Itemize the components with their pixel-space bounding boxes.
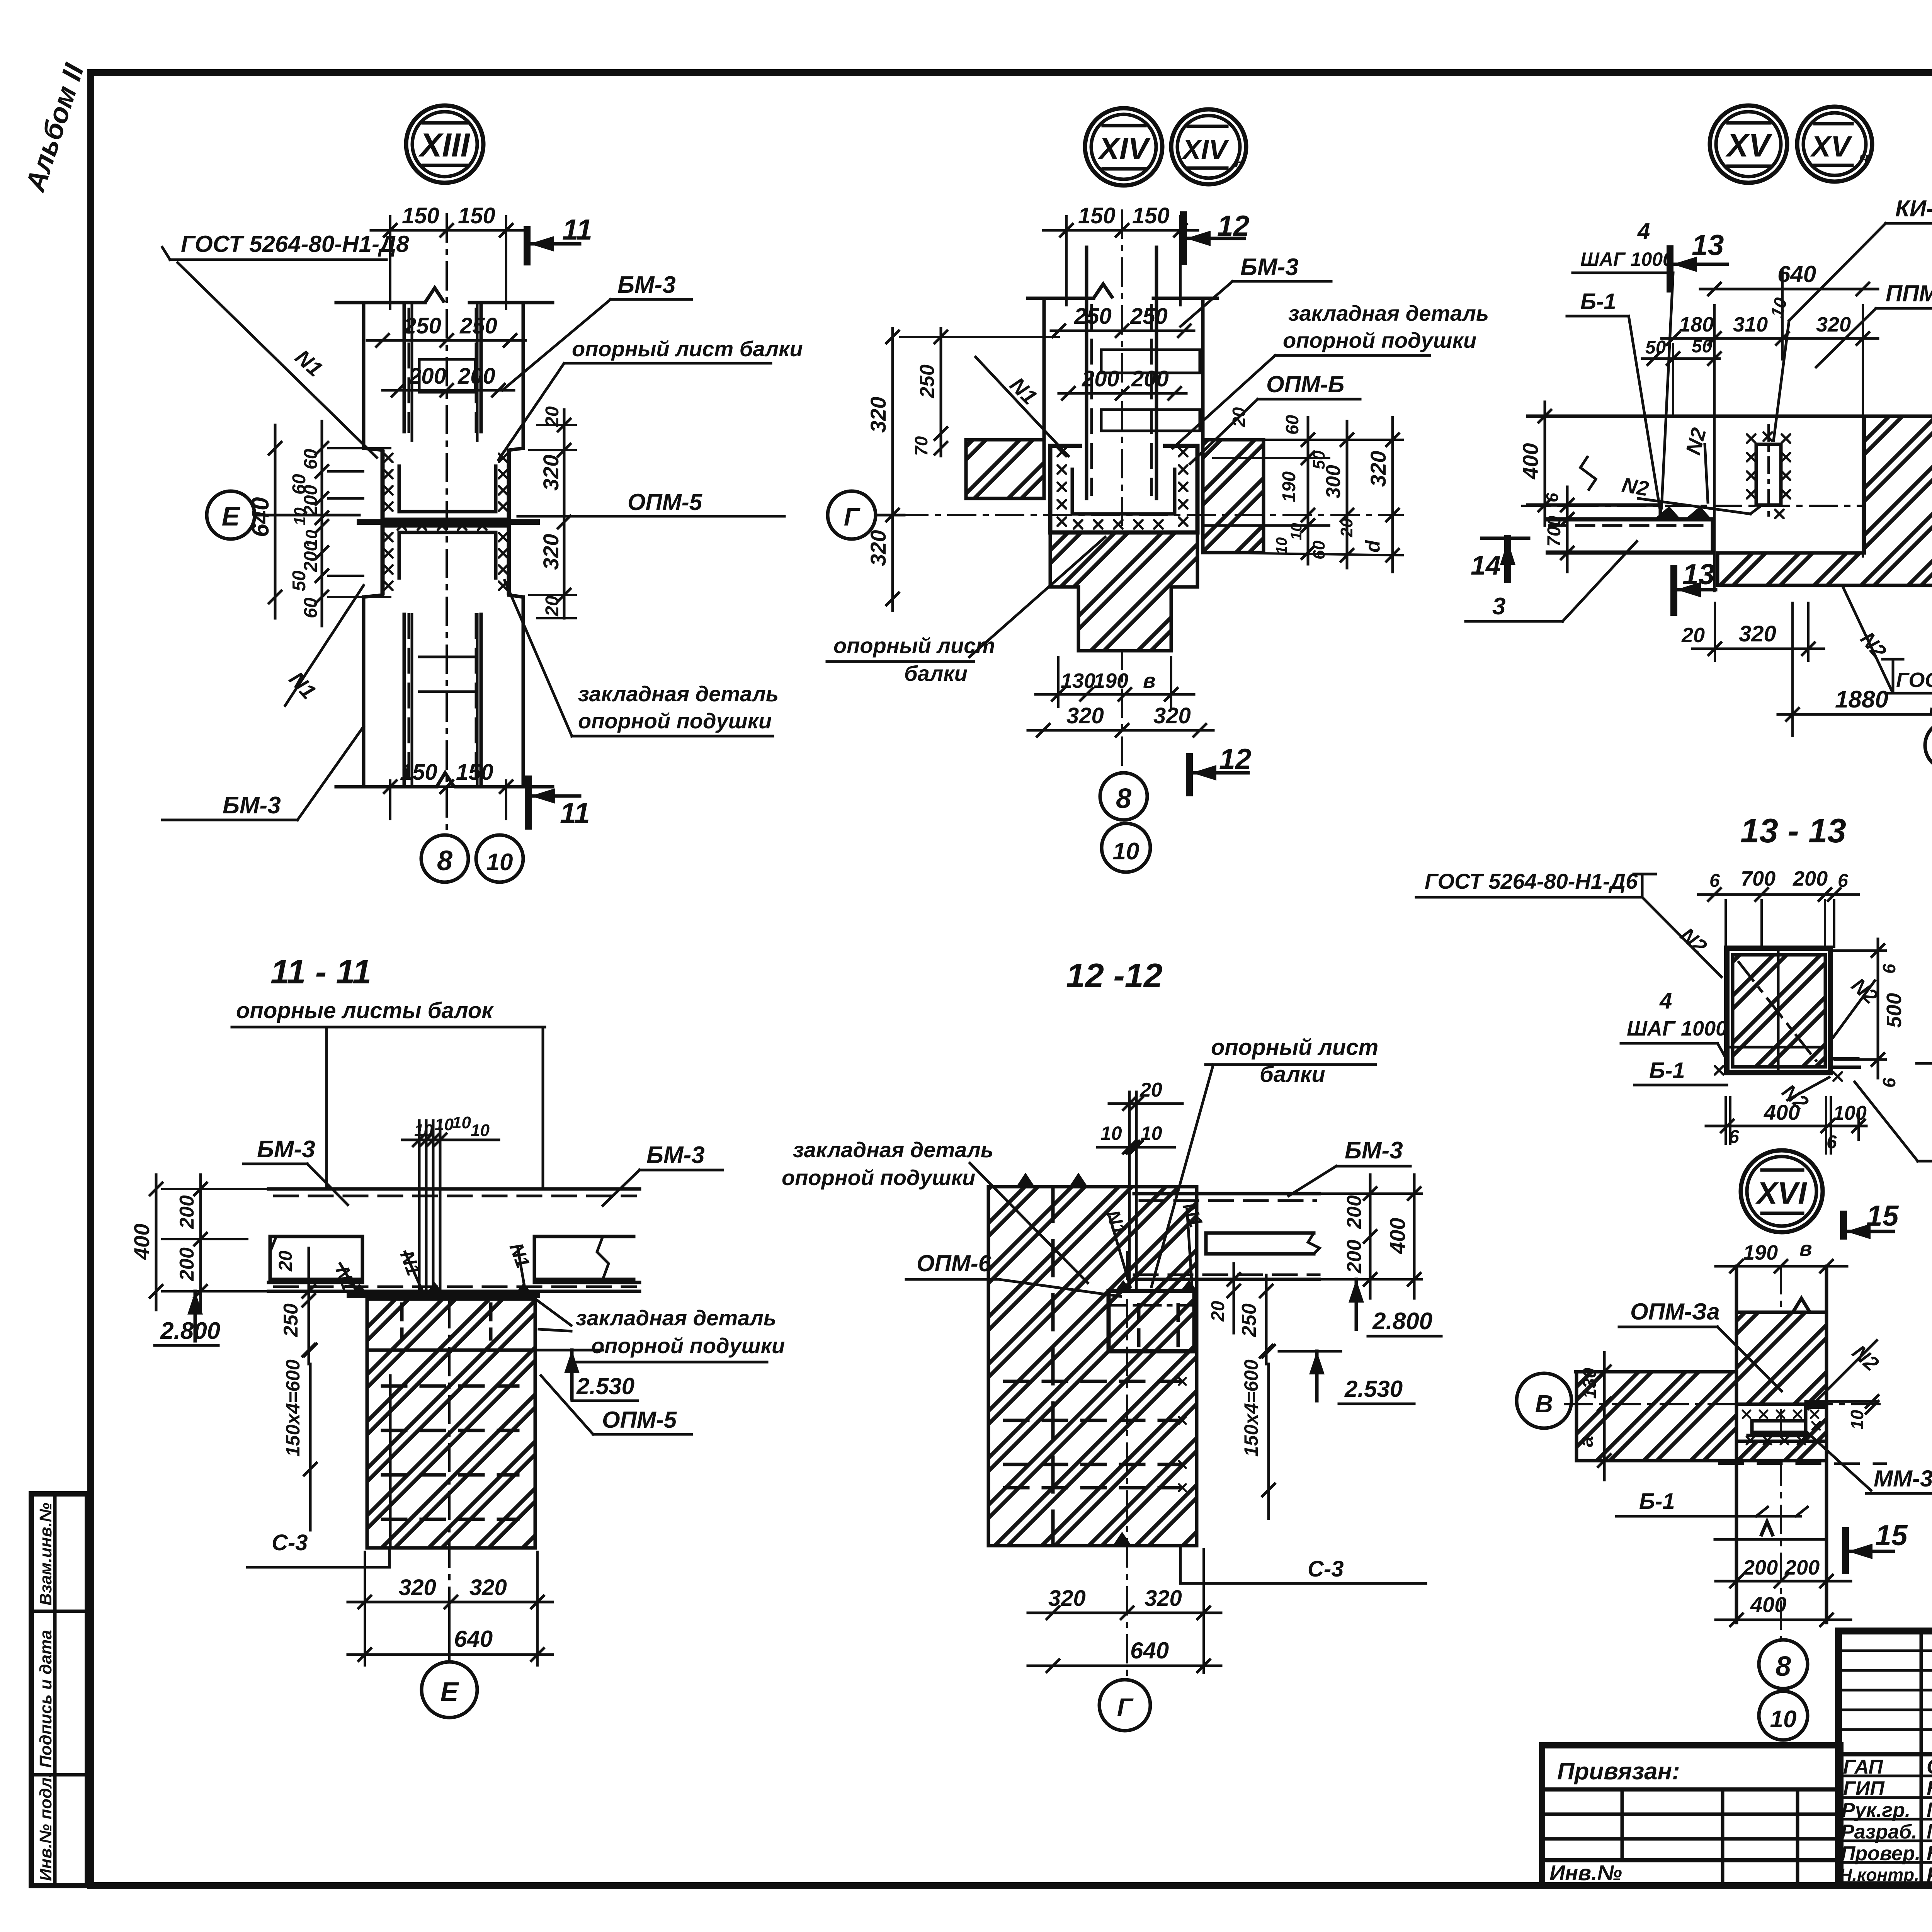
svg-text:320: 320: [1366, 451, 1390, 487]
section flags 14 XV: [1482, 537, 1529, 540]
svg-text:250: 250: [1074, 304, 1112, 329]
svg-text:Взам.инв.№: Взам.инв.№: [36, 1503, 55, 1605]
top peak XVI: [1793, 1298, 1810, 1312]
svg-text:н: н: [1859, 149, 1869, 168]
node circle E 11-11: [422, 1662, 477, 1718]
svg-text:15: 15: [1866, 1199, 1899, 1232]
svg-text:опорный лист балки: опорный лист балки: [572, 337, 803, 361]
dim 10 10 12-12: [1097, 1146, 1175, 1149]
svg-text:10: 10: [291, 507, 309, 526]
bottom dims 11-11: [348, 1601, 553, 1604]
svg-text:13: 13: [1682, 558, 1714, 590]
view marker XIVn: [1171, 109, 1246, 184]
svg-text:50: 50: [289, 570, 310, 591]
plate KI-3 XV: [1756, 444, 1781, 505]
svg-text:320: 320: [539, 455, 563, 491]
svg-text:Б-1: Б-1: [1639, 1489, 1675, 1514]
title block staff columns: [1920, 1631, 1923, 1885]
column hatch upper XVI: [1736, 1312, 1827, 1404]
dim 20 top 12-12: [1109, 1102, 1182, 1105]
svg-text:БМ-3: БМ-3: [1345, 1137, 1403, 1164]
svg-text:С-3: С-3: [1308, 1556, 1344, 1582]
svg-text:20: 20: [1139, 1079, 1162, 1101]
svg-text:200: 200: [1343, 1240, 1366, 1274]
svg-text:8: 8: [1116, 783, 1131, 814]
ties rows 12-12: [1005, 1380, 1190, 1383]
beam bottom / step XV: [1528, 503, 1660, 507]
svg-text:2.530: 2.530: [1344, 1376, 1403, 1402]
axis XVI: [1565, 1403, 1886, 1405]
node circle E: [207, 491, 255, 539]
svg-text:20: 20: [1208, 1301, 1228, 1322]
break mark XV: [1580, 456, 1596, 491]
svg-text:опорной подушки: опорной подушки: [591, 1333, 785, 1358]
column cut bottom XVI: [1715, 1538, 1827, 1541]
view marker XIII: [406, 105, 483, 183]
svg-text:8: 8: [437, 845, 452, 876]
svg-text:13: 13: [1692, 229, 1724, 261]
svg-text:Б-1: Б-1: [1649, 1058, 1685, 1083]
svg-text:6: 6: [1838, 871, 1848, 891]
svg-text:опорной подушки: опорной подушки: [782, 1165, 975, 1190]
svg-text:150: 150: [1078, 203, 1116, 228]
column walls XIII: [336, 301, 425, 304]
svg-text:4: 4: [1637, 219, 1650, 244]
svg-text:250: 250: [916, 364, 939, 398]
svg-text:а: а: [1575, 1436, 1597, 1447]
bottom dims 12-12: [1028, 1612, 1221, 1614]
svg-text:400: 400: [129, 1224, 154, 1260]
section flag 12 bottom: [1186, 757, 1193, 793]
section flag 13 bottom XV: [1670, 568, 1677, 612]
svg-text:БМ-3: БМ-3: [646, 1142, 705, 1168]
svg-text:балки: балки: [904, 661, 968, 685]
svg-text:ММ-3: ММ-3: [1874, 1466, 1932, 1492]
svg-text:60: 60: [1282, 415, 1302, 435]
dim 20 320 XV: [1692, 648, 1824, 650]
svg-text:6: 6: [1879, 1078, 1899, 1088]
centerline XIII: [446, 214, 448, 835]
svg-text:Морозова: Морозова: [1927, 1820, 1932, 1843]
dim chain left XIII 640: [274, 425, 277, 618]
svg-text:150х4=600: 150х4=600: [282, 1359, 304, 1457]
circles 8 10 XVI: [1759, 1640, 1808, 1689]
svg-text:200: 200: [1793, 867, 1828, 890]
svg-text:Рондарева: Рондарева: [1927, 1863, 1932, 1886]
dims left XIV: [891, 328, 894, 611]
svg-text:12: 12: [1217, 209, 1249, 242]
dim 150x4 12-12: [1267, 1364, 1270, 1519]
section flag 11 bottom: [525, 779, 532, 826]
svg-text:Разраб.: Разраб.: [1841, 1821, 1917, 1843]
svg-text:ОПМ-За: ОПМ-За: [1630, 1299, 1720, 1325]
svg-text:400: 400: [1764, 1100, 1800, 1124]
dim 320 320 XIV: [1028, 729, 1213, 732]
svg-text:XVI: XVI: [1755, 1176, 1808, 1210]
view marker XIV: [1085, 108, 1162, 185]
svg-text:КИ-3: КИ-3: [1895, 196, 1932, 221]
svg-text:Рук.гр.: Рук.гр.: [1842, 1799, 1910, 1821]
elevation 2.800 11-11: [187, 1291, 203, 1315]
svg-text:Провер.: Провер.: [1841, 1842, 1920, 1865]
axis XV: [1522, 505, 1932, 507]
svg-text:320: 320: [1153, 703, 1191, 728]
svg-text:400: 400: [1518, 443, 1543, 480]
square section 13-13: [1727, 948, 1830, 1073]
svg-text:1880: 1880: [1835, 686, 1888, 713]
svg-text:20: 20: [542, 595, 563, 617]
dim 6 700 200 6 13-13: [1698, 893, 1859, 896]
dims right 12-12: [1369, 1175, 1372, 1298]
svg-text:11: 11: [560, 797, 590, 829]
wall hatch 12-12: [988, 1187, 1197, 1546]
pad 12-12: [1109, 1291, 1194, 1351]
svg-text:ОПМ-Б: ОПМ-Б: [1266, 371, 1344, 397]
weld x marks XIII: [384, 454, 393, 462]
weld smudges XV: [1654, 506, 1681, 519]
beam top line XV: [1528, 415, 1932, 418]
svg-text:Е: Е: [222, 501, 241, 531]
dim 190 v XVI: [1716, 1265, 1847, 1268]
svg-text:190: 190: [1094, 669, 1128, 692]
svg-text:200: 200: [301, 541, 321, 572]
section flag 13 top XV: [1667, 249, 1673, 289]
svg-text:8: 8: [1776, 1651, 1791, 1682]
svg-text:XV: XV: [1810, 130, 1852, 163]
svg-text:10: 10: [435, 1115, 454, 1134]
dim 150 150 bottom XIII: [363, 786, 537, 788]
dim 150x4 11-11: [309, 1364, 312, 1530]
svg-text:60: 60: [301, 597, 321, 618]
svg-text:ППМ-За: ППМ-За: [1886, 281, 1932, 306]
svg-text:в: в: [1143, 669, 1156, 692]
svg-text:200: 200: [1343, 1195, 1366, 1229]
node circle V XVI: [1517, 1373, 1571, 1428]
section flag 15 bottom XVI: [1842, 1531, 1849, 1571]
svg-text:320: 320: [866, 530, 890, 566]
axis line XIV: [900, 514, 1403, 516]
svg-text:С-3: С-3: [272, 1530, 308, 1555]
svg-text:6: 6: [1709, 871, 1720, 891]
wall top peaks 12-12: [1016, 1173, 1035, 1187]
svg-text:150: 150: [456, 760, 493, 785]
svg-text:Б-1: Б-1: [1580, 289, 1616, 314]
svg-text:н: н: [1235, 152, 1245, 171]
svg-text:опорные листы балок: опорные листы балок: [236, 998, 494, 1023]
svg-text:ОПМ-5: ОПМ-5: [628, 489, 703, 515]
svg-text:640: 640: [454, 1626, 493, 1652]
lower mass hatch XIV: [1050, 532, 1197, 651]
support sheet plate 12-12: [1128, 1092, 1131, 1289]
privyazan table: [1542, 1745, 1840, 1886]
svg-text:10: 10: [452, 1113, 471, 1132]
dim 150 150 top XIII: [371, 229, 526, 232]
svg-text:10: 10: [1273, 537, 1290, 555]
svg-text:2.530: 2.530: [576, 1373, 634, 1399]
svg-text:13 - 13: 13 - 13: [1740, 811, 1846, 850]
svg-text:закладная деталь: закладная деталь: [1288, 301, 1489, 325]
left wall hatch XIV: [966, 440, 1044, 498]
dims right 13-13: [1877, 939, 1879, 1078]
svg-text:400: 400: [1385, 1218, 1410, 1254]
svg-text:15: 15: [1875, 1519, 1908, 1551]
svg-text:320: 320: [1816, 313, 1851, 336]
svg-text:10: 10: [1100, 1122, 1122, 1144]
column 11-11: [367, 1299, 535, 1548]
view marker XVI: [1741, 1150, 1823, 1232]
dim 250 250 XIV: [1051, 330, 1194, 332]
svg-text:Привязан:: Привязан:: [1557, 1758, 1680, 1785]
svg-text:320: 320: [1048, 1586, 1086, 1611]
svg-text:11 - 11: 11 - 11: [270, 952, 371, 991]
svg-text:Г: Г: [844, 502, 861, 531]
dim 200 200 XIII: [383, 389, 514, 392]
svg-text:ГОСТ 5264-80-Н1-Д8: ГОСТ 5264-80-Н1-Д8: [181, 231, 409, 257]
svg-text:XIII: XIII: [418, 127, 470, 164]
svg-text:ШАГ 1000: ШАГ 1000: [1627, 1017, 1727, 1040]
svg-text:10: 10: [1847, 1410, 1867, 1430]
svg-text:10: 10: [1141, 1122, 1162, 1144]
svg-text:Каледина: Каледина: [1927, 1842, 1932, 1865]
column walls XIII lower: [362, 597, 366, 787]
svg-text:70: 70: [911, 436, 931, 456]
beam web holes 11-11: [270, 1236, 362, 1279]
dim 640 XV: [1700, 288, 1878, 291]
svg-text:XIV: XIV: [1097, 131, 1151, 166]
svg-text:250: 250: [1130, 304, 1168, 329]
masonry right XV: [1718, 416, 1932, 585]
dims left XV: [1544, 402, 1546, 526]
elevation 2.530 12-12: [1309, 1351, 1325, 1374]
dim 10101010 11-11: [402, 1139, 499, 1141]
svg-text:700: 700: [1741, 867, 1776, 890]
svg-text:500: 500: [1883, 993, 1906, 1028]
beams band 11-11: [269, 1187, 639, 1191]
break peak XVI: [1761, 1522, 1773, 1536]
pad XIV: [1050, 446, 1197, 532]
dim 1880 XV: [1778, 713, 1932, 716]
svg-text:Подпись и дата: Подпись и дата: [36, 1630, 55, 1768]
svg-text:250: 250: [1238, 1303, 1260, 1337]
dim 400 XVI: [1716, 1619, 1851, 1621]
pad dashed XV: [1546, 519, 1713, 553]
svg-text:Инв.№: Инв.№: [1549, 1861, 1622, 1885]
svg-text:10: 10: [486, 849, 513, 876]
svg-text:300: 300: [1322, 465, 1345, 498]
dashed line below XVI: [1719, 1463, 1886, 1465]
svg-text:12: 12: [1219, 743, 1251, 775]
svg-text:БМ-3: БМ-3: [223, 792, 281, 819]
weld x marks XIV: [1058, 448, 1066, 456]
svg-text:20: 20: [1681, 624, 1705, 647]
node circle G 12-12: [1099, 1680, 1150, 1731]
wall bottom peak 12-12: [1113, 1532, 1131, 1546]
dim 200 200 XIV: [1059, 392, 1186, 395]
svg-text:50: 50: [1692, 336, 1713, 357]
svg-text:ШАГ 1000: ШАГ 1000: [1580, 248, 1673, 270]
svg-text:200: 200: [457, 364, 495, 389]
svg-text:320: 320: [1066, 703, 1104, 728]
dim 180 310 320 XV: [1662, 337, 1878, 340]
svg-text:XV: XV: [1725, 127, 1772, 163]
dims right XIV: [1307, 417, 1310, 564]
vertical ext lines XV: [1713, 305, 1716, 591]
svg-text:3: 3: [1492, 593, 1505, 620]
svg-text:закладная деталь: закладная деталь: [578, 682, 779, 706]
svg-text:130: 130: [1061, 669, 1095, 692]
label N1 lower XIII: [285, 585, 364, 706]
dim 150 150 top XIV: [1043, 229, 1198, 232]
svg-text:700: 700: [1544, 516, 1565, 547]
title block outer: [1838, 1631, 1932, 1885]
svg-text:БМ-3: БМ-3: [1240, 254, 1299, 281]
svg-text:14: 14: [1471, 550, 1501, 580]
svg-text:10: 10: [1770, 1706, 1797, 1733]
svg-text:Е: Е: [440, 1677, 459, 1707]
svg-text:60: 60: [301, 449, 321, 469]
svg-text:320: 320: [469, 1575, 507, 1600]
svg-text:опорный лист: опорный лист: [1211, 1035, 1378, 1060]
weld smudges 11-11: [350, 1284, 369, 1295]
svg-text:10: 10: [471, 1121, 490, 1140]
walls XIV: [1028, 297, 1094, 300]
svg-text:20: 20: [276, 1250, 296, 1272]
hatch right of pad XVI: [1806, 1407, 1827, 1441]
svg-text:Каледина: Каледина: [1927, 1777, 1932, 1800]
svg-text:200: 200: [1131, 366, 1169, 391]
svg-text:150: 150: [1132, 203, 1170, 228]
section flag 11 top: [524, 230, 531, 262]
svg-text:200: 200: [1743, 1556, 1778, 1579]
svg-text:ОПМ-6: ОПМ-6: [917, 1250, 992, 1276]
dim 200 200 XVI: [1716, 1580, 1851, 1583]
svg-text:250: 250: [403, 313, 441, 338]
svg-text:2.800: 2.800: [1372, 1308, 1432, 1335]
svg-text:190: 190: [1279, 471, 1299, 502]
svg-text:6: 6: [1879, 964, 1899, 974]
svg-text:320: 320: [866, 397, 890, 433]
title block small grid rows: [1838, 1650, 1932, 1652]
svg-text:ГАП: ГАП: [1843, 1756, 1884, 1778]
ties rows 11-11: [383, 1384, 518, 1388]
svg-text:400: 400: [1750, 1592, 1786, 1617]
svg-text:Г: Г: [1117, 1693, 1134, 1721]
svg-text:150: 150: [458, 203, 495, 228]
circles 8 10 XIII: [421, 835, 468, 882]
svg-text:ГОСТ 5264-80-Н1-Д6: ГОСТ 5264-80-Н1-Д6: [1896, 668, 1932, 692]
elevation 2.800 12-12: [1349, 1279, 1364, 1303]
beam plates XIII upper: [411, 305, 413, 440]
svg-text:50: 50: [1645, 337, 1666, 358]
pad MM-3 XVI: [1752, 1421, 1806, 1432]
svg-text:200: 200: [176, 1195, 198, 1229]
svg-text:ГОСТ 5264-80-Н1-Д6: ГОСТ 5264-80-Н1-Д6: [1425, 869, 1638, 893]
svg-text:2.800: 2.800: [160, 1318, 220, 1344]
angle bottom right 13-13: [1830, 1057, 1858, 1061]
beam inner XIV: [1101, 350, 1200, 373]
svg-text:опорной подушки: опорной подушки: [578, 709, 772, 733]
dims left XVI: [1603, 1352, 1606, 1480]
dims left 11-11: [155, 1175, 158, 1310]
dim chain left XIII small: [321, 421, 323, 626]
elevation 2.530 11-11: [564, 1350, 580, 1373]
svg-text:320: 320: [539, 534, 563, 570]
node circle G XIV connector: [876, 514, 904, 517]
svg-text:320: 320: [399, 1575, 436, 1600]
svg-text:150х4=600: 150х4=600: [1240, 1359, 1262, 1457]
svg-text:150: 150: [402, 203, 439, 228]
svg-text:d: d: [1362, 540, 1384, 553]
circles 8 10 XV: [1925, 721, 1932, 770]
dim 130 190 v XIV: [1036, 693, 1194, 696]
svg-text:Инв.№ подл.: Инв.№ подл.: [36, 1773, 55, 1881]
heavy dashed vertical 12-12: [1051, 1187, 1055, 1546]
svg-text:Смирнов: Смирнов: [1927, 1755, 1932, 1778]
staff rows: [1838, 1775, 1932, 1777]
svg-text:11: 11: [562, 213, 592, 246]
left wall hatch XVI: [1577, 1372, 1736, 1461]
svg-text:10: 10: [414, 1121, 433, 1140]
svg-text:ОПМ-5: ОПМ-5: [602, 1407, 677, 1433]
left sidebar table: [31, 1494, 87, 1886]
svg-text:250: 250: [459, 313, 497, 338]
support pad upper XIII: [383, 450, 509, 520]
svg-text:12 -12: 12 -12: [1066, 956, 1163, 995]
centerline XIV: [1121, 211, 1123, 770]
svg-text:Морозова: Морозова: [1927, 1798, 1932, 1821]
N1 diagonal XIV: [976, 357, 1068, 456]
svg-text:4: 4: [1659, 988, 1672, 1014]
support pad lower XIII: [383, 526, 509, 595]
view marker XV: [1710, 105, 1787, 183]
svg-text:310: 310: [1733, 313, 1768, 336]
column verticals XVI: [1735, 1266, 1738, 1622]
svg-text:20: 20: [1337, 518, 1356, 537]
svg-text:закладная деталь: закладная деталь: [793, 1138, 993, 1162]
svg-text:180: 180: [1679, 313, 1714, 336]
dim 250 250 XIII: [367, 339, 526, 342]
node circle G XIV: [828, 491, 876, 539]
svg-text:N2: N2: [1620, 473, 1650, 501]
dim 50 50 XV: [1642, 357, 1719, 360]
svg-text:200: 200: [408, 364, 446, 389]
beam 12-12: [1134, 1192, 1319, 1196]
svg-text:200: 200: [176, 1247, 198, 1281]
svg-text:60: 60: [1310, 541, 1328, 560]
svg-text:XIV: XIV: [1181, 134, 1230, 165]
view marker XVn: [1797, 107, 1872, 182]
centerline 12-12: [1126, 1252, 1128, 1681]
svg-text:200: 200: [1784, 1556, 1820, 1579]
svg-text:В: В: [1535, 1390, 1553, 1418]
svg-text:6: 6: [1543, 493, 1562, 502]
svg-text:640: 640: [1130, 1638, 1169, 1663]
svg-text:ГИП: ГИП: [1843, 1777, 1885, 1800]
svg-text:250: 250: [280, 1303, 302, 1337]
centerline 11-11: [448, 1300, 451, 1600]
svg-text:320: 320: [1739, 621, 1776, 646]
weld smudges 12-12: [1115, 1280, 1132, 1291]
svg-text:10: 10: [1113, 838, 1139, 865]
svg-text:в: в: [1799, 1237, 1812, 1260]
section flag 15 top XVI: [1840, 1214, 1847, 1236]
svg-text:опорной подушки: опорной подушки: [1283, 328, 1476, 352]
svg-text:Н.контр.: Н.контр.: [1839, 1865, 1919, 1885]
svg-text:150: 150: [400, 760, 437, 785]
section flag 12 top: [1180, 215, 1187, 262]
dim chain right XIII: [563, 410, 566, 618]
svg-text:320: 320: [1145, 1586, 1182, 1611]
